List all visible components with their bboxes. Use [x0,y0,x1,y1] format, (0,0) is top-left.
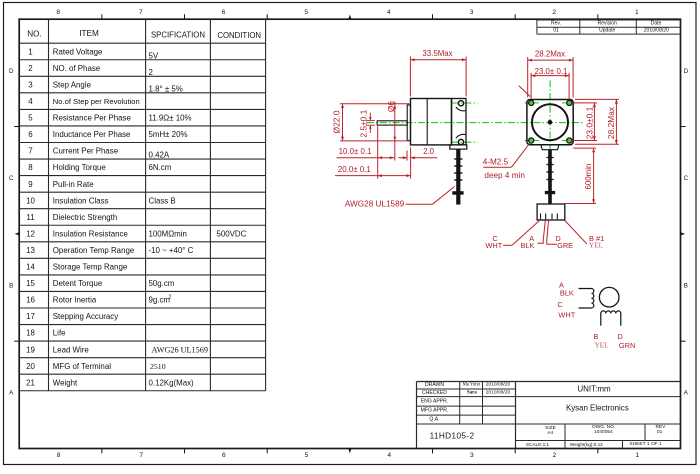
svg-text:4: 4 [387,9,391,16]
svg-text:YEL: YEL [589,242,603,250]
svg-text:11HD105-2: 11HD105-2 [430,432,475,441]
svg-text:10: 10 [26,196,35,205]
svg-text:AWG26 UL1569: AWG26 UL1569 [152,346,208,355]
svg-text:AWG28 UL1589: AWG28 UL1589 [345,200,405,209]
svg-text:Lead Wire: Lead Wire [53,345,90,354]
svg-text:2: 2 [169,295,172,301]
svg-text:C: C [557,300,563,309]
svg-text:Rev.: Rev. [551,21,561,27]
svg-text:5: 5 [304,9,308,16]
svg-text:6N.cm: 6N.cm [149,163,172,172]
svg-text:B: B [593,332,598,341]
svg-text:2: 2 [552,9,556,16]
svg-text:2: 2 [28,64,32,73]
svg-text:8: 8 [56,9,60,16]
svg-text:5mH± 20%: 5mH± 20% [149,130,188,139]
svg-text:3: 3 [470,9,474,16]
svg-text:WHT: WHT [485,241,502,250]
svg-text:8: 8 [28,163,33,172]
svg-text:CHECKED: CHECKED [422,390,447,396]
svg-text:0.42A: 0.42A [149,151,170,160]
svg-text:10.0± 0.1: 10.0± 0.1 [339,147,372,156]
svg-text:Operation Temp Range: Operation Temp Range [53,246,135,255]
svg-text:01: 01 [553,28,559,34]
svg-text:23.0±0.1: 23.0±0.1 [584,106,594,139]
svg-text:D: D [9,68,14,75]
svg-text:Revision: Revision [598,21,617,27]
svg-text:Resistance Per Phase: Resistance Per Phase [53,114,132,123]
svg-text:Kysan Electronics: Kysan Electronics [566,404,629,413]
svg-text:50g.cm: 50g.cm [149,279,175,288]
svg-text:5: 5 [28,114,33,123]
svg-text:Dielectric Strength: Dielectric Strength [53,213,117,222]
svg-text:C: C [9,175,14,182]
svg-text:Sara: Sara [467,390,477,395]
svg-text:20.0± 0.1: 20.0± 0.1 [338,165,371,174]
svg-text:4-M2.5: 4-M2.5 [483,157,509,166]
svg-text:2.0: 2.0 [423,147,435,156]
svg-text:4: 4 [387,452,391,459]
svg-text:ITEM: ITEM [79,29,99,38]
svg-text:15: 15 [26,279,35,288]
svg-text:Ma Yufei: Ma Yufei [463,383,481,388]
svg-text:A4: A4 [547,430,553,436]
svg-text:CONDITION: CONDITION [217,31,261,40]
svg-text:0.12Kg(Max): 0.12Kg(Max) [149,378,195,387]
svg-text:12: 12 [26,229,35,238]
svg-text:1: 1 [28,47,32,56]
svg-text:28.2Max: 28.2Max [535,50,565,59]
svg-text:5: 5 [305,452,309,459]
svg-text:2: 2 [553,452,557,459]
svg-text:Weight(kg):0.12: Weight(kg):0.12 [570,442,603,447]
svg-text:6: 6 [222,452,226,459]
svg-text:1.8° ± 5%: 1.8° ± 5% [149,84,183,93]
svg-text:WHT: WHT [558,311,575,320]
svg-text:Pull-in Rate: Pull-in Rate [53,180,94,189]
svg-text:1040054: 1040054 [594,429,613,435]
svg-text:SPCIFICATION: SPCIFICATION [151,31,205,40]
svg-text:Step Angle: Step Angle [53,80,92,89]
svg-text:UNIT:mm: UNIT:mm [577,385,611,394]
svg-text:GRN: GRN [619,341,635,350]
svg-text:20: 20 [26,362,35,371]
svg-text:23.0± 0.1: 23.0± 0.1 [535,67,568,76]
svg-text:3: 3 [28,80,33,89]
svg-text:NO. of Phase: NO. of Phase [53,64,101,73]
svg-text:SIZE: SIZE [545,425,556,431]
svg-text:13: 13 [26,246,35,255]
svg-text:100MΩmin: 100MΩmin [149,229,187,238]
svg-text:Ø22.0: Ø22.0 [332,110,342,133]
svg-text:No.of Step per Revolution: No.of Step per Revolution [53,97,140,106]
svg-text:11: 11 [26,213,34,222]
svg-text:Rotor Inertia: Rotor Inertia [53,296,97,305]
svg-text:YEL: YEL [595,341,609,349]
svg-text:2010/08/20: 2010/08/20 [486,382,511,388]
svg-text:Date: Date [651,21,662,27]
svg-text:9g.cm: 9g.cm [149,296,171,305]
svg-text:6: 6 [28,130,33,139]
svg-text:Storage Temp Range: Storage Temp Range [53,263,128,272]
svg-text:9: 9 [28,180,33,189]
svg-text:01: 01 [657,429,663,435]
svg-text:8: 8 [57,452,61,459]
svg-text:Q.A.: Q.A. [429,417,439,423]
svg-text:Stepping Accuracy: Stepping Accuracy [53,312,118,321]
svg-text:MFG APPR.: MFG APPR. [421,408,449,414]
svg-text:MFG of Terminal: MFG of Terminal [53,362,111,371]
svg-text:18: 18 [26,329,35,338]
svg-text:ENG APPR.: ENG APPR. [421,398,448,404]
svg-text:6: 6 [222,9,226,16]
svg-text:SCALE:1:1: SCALE:1:1 [526,442,550,447]
svg-text:Insulation Class: Insulation Class [53,196,109,205]
svg-text:deep 4 min: deep 4 min [484,171,525,180]
svg-text:Life: Life [53,329,66,338]
svg-text:19: 19 [26,345,35,354]
svg-text:B: B [9,282,13,289]
svg-text:2: 2 [149,68,153,77]
svg-text:14: 14 [26,263,35,272]
svg-text:3: 3 [470,452,474,459]
svg-text:2510: 2510 [150,362,166,371]
svg-text:500VDC: 500VDC [217,229,247,238]
svg-text:7: 7 [28,147,32,156]
svg-text:Holding Torque: Holding Torque [53,163,107,172]
svg-text:28.2Max: 28.2Max [606,106,616,139]
svg-text:4: 4 [28,97,33,106]
svg-text:2010/08/20: 2010/08/20 [486,389,511,395]
svg-text:DRAWN: DRAWN [425,382,444,388]
svg-text:Rated Voltage: Rated Voltage [53,47,103,56]
svg-text:Detent Torque: Detent Torque [53,279,103,288]
svg-text:Inductance Per Phase: Inductance Per Phase [53,130,131,139]
svg-text:-10 ~ +40° C: -10 ~ +40° C [149,246,194,255]
svg-text:Update: Update [599,28,615,34]
svg-text:21: 21 [26,378,35,387]
svg-text:NO.: NO. [27,29,42,38]
svg-text:7: 7 [139,9,143,16]
svg-text:D: D [617,332,622,341]
svg-text:Class B: Class B [149,196,176,205]
svg-text:2.5±0.1: 2.5±0.1 [358,109,368,137]
svg-text:33.5Max: 33.5Max [422,49,452,58]
svg-text:2010/08/20: 2010/08/20 [644,28,669,34]
svg-text:Current Per Phase: Current Per Phase [53,147,119,156]
svg-text:7: 7 [139,452,143,459]
svg-text:D: D [684,68,689,75]
svg-text:BLK: BLK [560,289,574,298]
svg-text:1: 1 [635,9,639,16]
svg-text:Insulation Resistance: Insulation Resistance [53,229,129,238]
svg-text:C: C [684,175,689,182]
svg-text:16: 16 [26,296,35,305]
svg-text:Weight: Weight [53,378,78,387]
svg-text:BLK: BLK [521,241,535,250]
svg-text:1: 1 [635,452,639,459]
svg-text:600min: 600min [584,164,593,190]
svg-text:17: 17 [26,312,35,321]
svg-text:SHEET 1 OF 1: SHEET 1 OF 1 [629,441,662,447]
svg-text:GRE: GRE [557,241,573,250]
svg-text:B: B [684,282,688,289]
svg-text:5V: 5V [149,51,159,60]
svg-text:11.9Ω± 10%: 11.9Ω± 10% [149,114,192,123]
